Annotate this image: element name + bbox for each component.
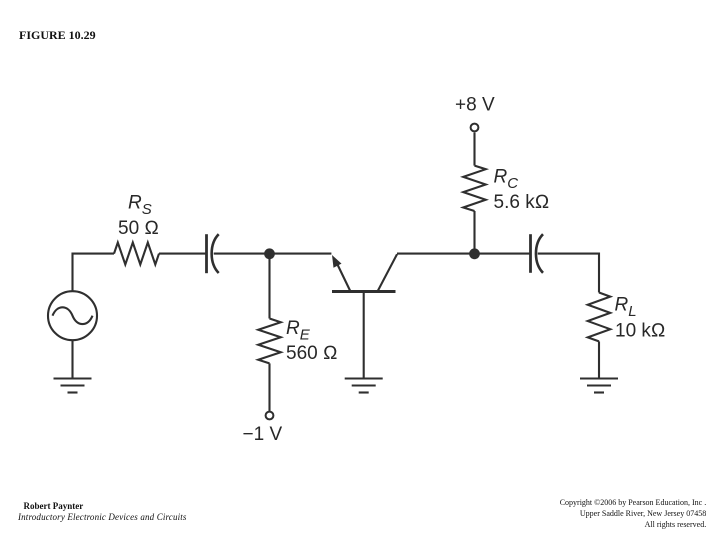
wire RS to C1 [159, 253, 206, 255]
wire source top to main rail [73, 254, 115, 292]
terminal +8V [471, 124, 479, 132]
svg-text:+8 V: +8 V [455, 95, 495, 116]
wire source bottom to ground [71, 340, 73, 377]
wire node B to C2 [475, 253, 530, 255]
transistor Q1 base bar [332, 290, 396, 293]
svg-text:50 Ω: 50 Ω [118, 218, 159, 239]
ground (source) [54, 379, 92, 393]
svg-text:10 kΩ: 10 kΩ [615, 321, 666, 342]
ground (RL) [580, 379, 618, 393]
wire node B up to RC [473, 211, 475, 254]
AC source sine wave [53, 307, 93, 324]
resistor RL [588, 293, 611, 342]
AC source VS [48, 291, 97, 340]
wire collector to node B [397, 253, 475, 255]
svg-text:RE: RE [286, 318, 311, 344]
capacitor C2 plate [529, 234, 532, 273]
transistor Q1 emitter arrowhead [332, 255, 342, 268]
resistor RS [114, 243, 159, 265]
svg-text:−1 V: −1 V [243, 424, 283, 445]
ground (base) [345, 379, 383, 393]
wire RL to ground [598, 341, 600, 377]
svg-text:RS: RS [128, 193, 152, 219]
wire RE to -1V terminal [268, 363, 270, 411]
footer left credits [18, 501, 187, 523]
svg-text:5.6 kΩ: 5.6 kΩ [494, 192, 550, 213]
resistor RE [258, 319, 281, 364]
capacitor C1 plate [205, 234, 208, 273]
transistor Q1 base lead [363, 292, 365, 378]
transistor Q1 collector lead [378, 254, 397, 290]
capacitor C2 curved plate [536, 234, 543, 273]
node B (collector node) [469, 248, 480, 259]
svg-text:RC: RC [494, 167, 519, 193]
capacitor C1 curved plate [212, 234, 219, 273]
wire C2 to RL [538, 254, 599, 293]
footer right copyright [560, 498, 707, 531]
transistor Q1 emitter lead [337, 263, 351, 291]
svg-text:RL: RL [615, 295, 637, 321]
wire RC to +8V terminal [473, 133, 475, 166]
wire node A down to RE [268, 254, 270, 319]
resistor RC [463, 166, 486, 211]
node A (emitter node) [264, 248, 275, 259]
wire C1 to emitter [214, 253, 332, 255]
terminal -1V [266, 412, 274, 420]
svg-text:560 Ω: 560 Ω [286, 343, 338, 364]
figure title [19, 29, 96, 41]
